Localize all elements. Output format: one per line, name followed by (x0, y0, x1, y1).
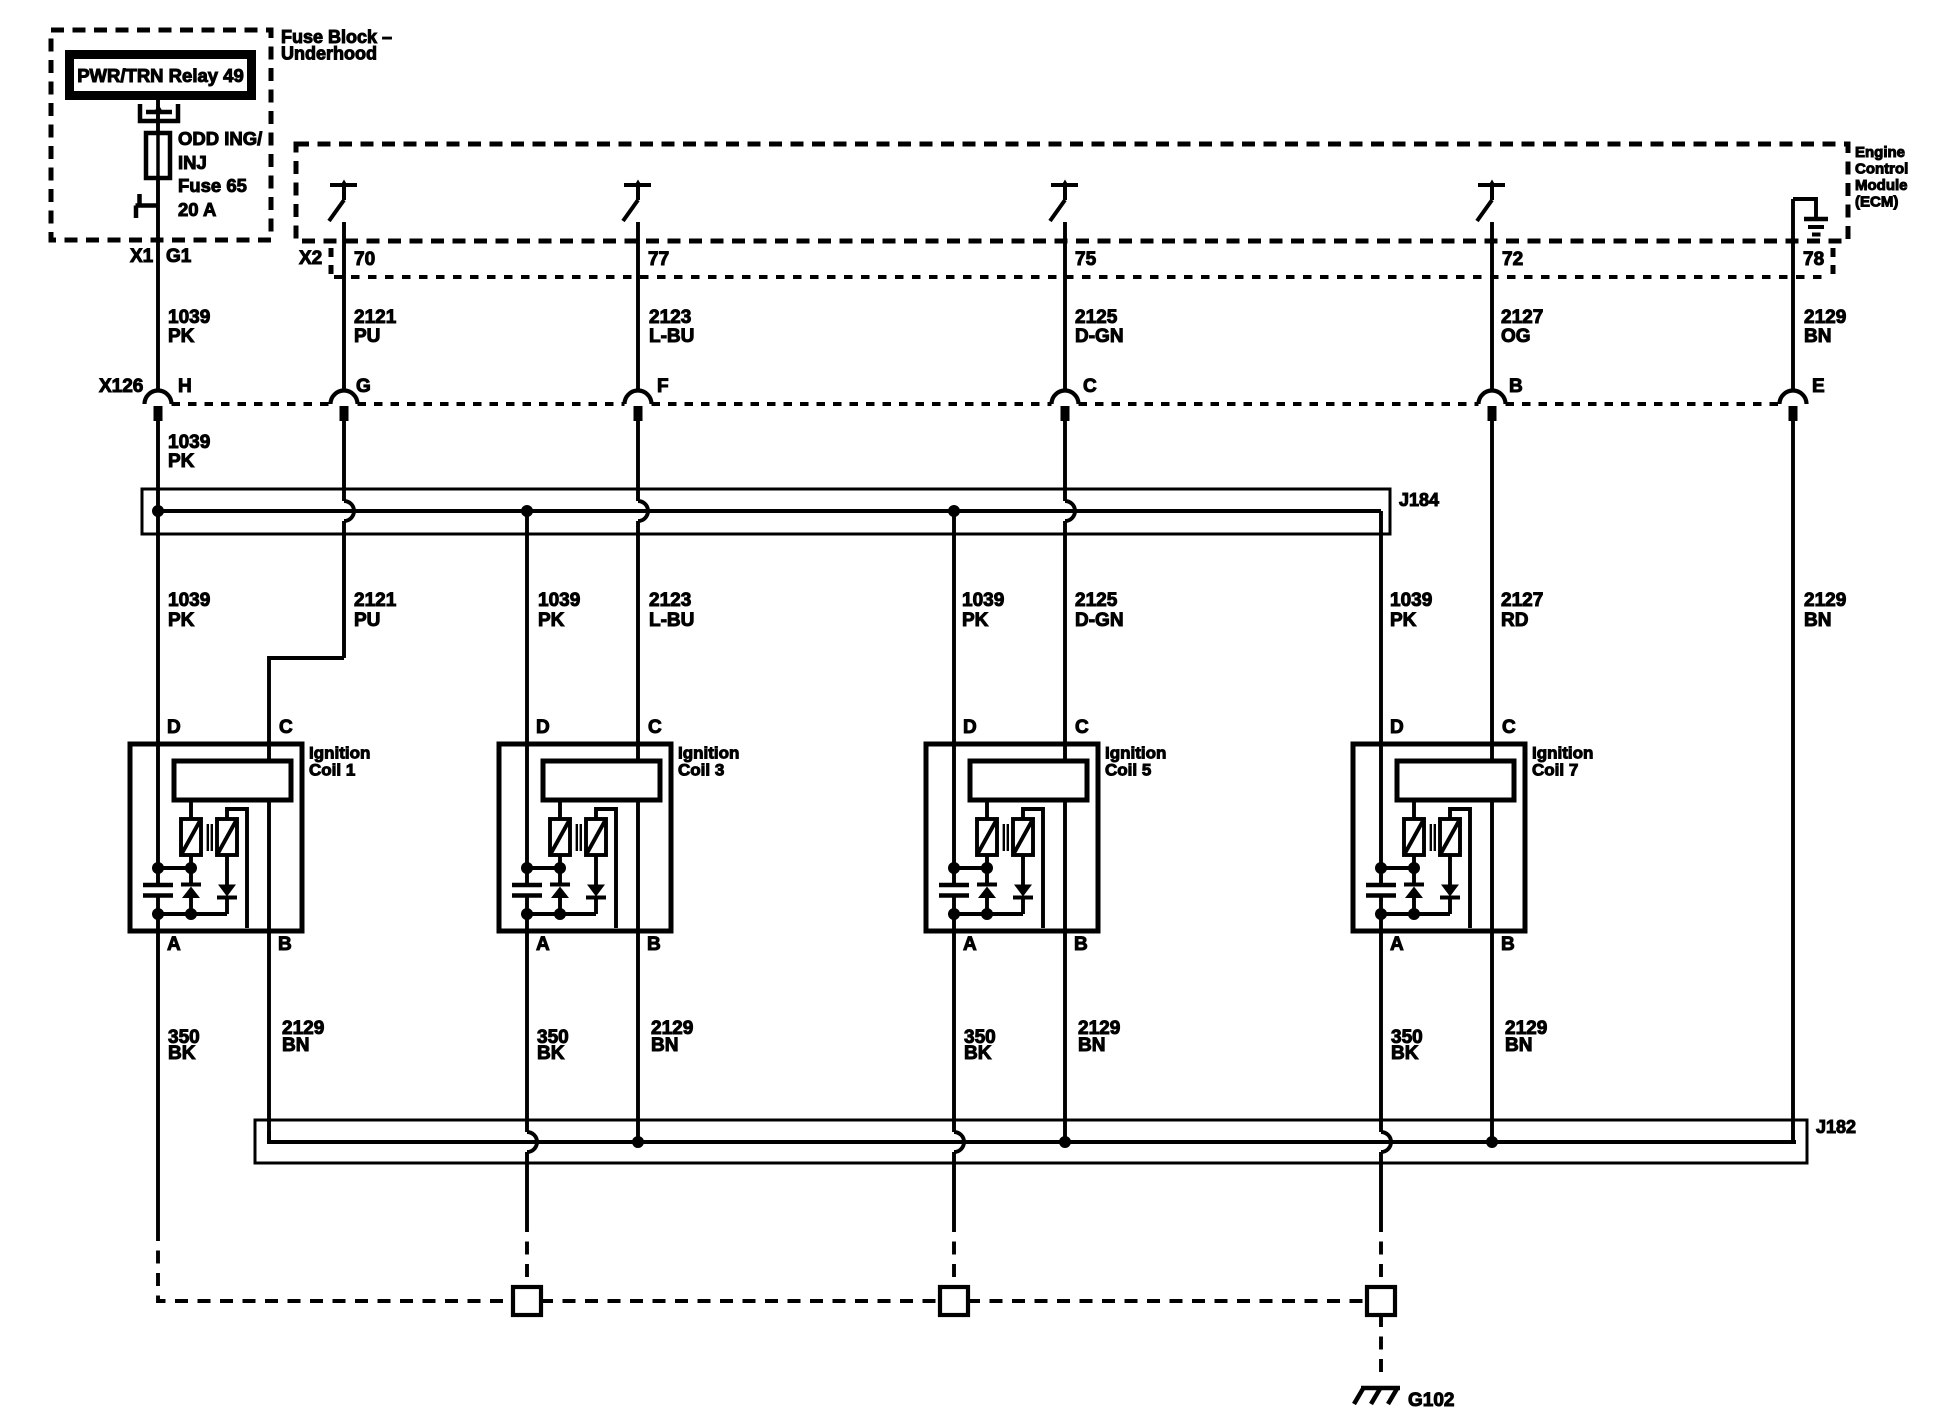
pin letter E (1812, 376, 1825, 397)
fuse block underhood dashed enclosure (51, 30, 271, 240)
pin number 77 (648, 249, 669, 270)
dashed ground link wire horizontal (540, 1299, 1368, 1303)
ignition coil 1 capacitor (143, 885, 173, 896)
coil 7 pin letter D (1390, 717, 1404, 738)
svg-text:PK: PK (1390, 610, 1417, 631)
wire 1039 PK from relay through fuse (vertical) (156, 100, 160, 391)
svg-text:1039: 1039 (962, 590, 1004, 611)
ignition coil 3 diode right (down) (586, 855, 606, 914)
svg-text:BN: BN (1505, 1035, 1532, 1056)
ignition coil 3 diode middle (up) (550, 868, 570, 914)
svg-text:Module: Module (1855, 177, 1908, 194)
wire label 2123 L-BU (upper) (649, 307, 694, 347)
svg-text:2125: 2125 (1075, 307, 1118, 328)
ignition coil 1 enclosure (130, 744, 302, 931)
label Ignition Coil 1 (309, 744, 370, 780)
splice S1 (513, 1287, 541, 1315)
relay terminal arrow (154, 105, 164, 114)
wire label 2129 BN (upper) (1804, 307, 1846, 347)
ignition coil 5 primary winding lead (985, 800, 989, 819)
wire label 2129 BN coil 1 (282, 1018, 324, 1056)
pin letter F (657, 376, 669, 397)
ignition coil 3 primary block (543, 761, 660, 800)
coil 1 pin letter A (167, 934, 181, 955)
ignition coil 5 diode middle (up) (977, 868, 997, 914)
label G102 (1408, 1390, 1454, 1411)
ignition coil 5 junction row lower (948, 908, 1023, 920)
coil 7 pin letter A (1390, 934, 1404, 955)
wire 1039 PK J184 to coil 5 pin D (952, 511, 956, 744)
ignition coil 7 capacitor (1366, 885, 1396, 896)
ignition coil 5 secondary output wire (1023, 809, 1043, 928)
svg-text:C: C (1502, 717, 1516, 738)
wire 2129 BN coil 5 pin B to J182 (1063, 931, 1067, 1142)
coil 3 pin letter C (648, 717, 662, 738)
svg-text:Control: Control (1855, 161, 1908, 178)
coil 5 pin letter A (963, 934, 977, 955)
dashed wire splice to ground (1379, 1314, 1383, 1380)
svg-text:D: D (167, 717, 181, 738)
svg-text:B: B (1509, 376, 1523, 397)
connector X126 pin H (145, 391, 172, 422)
svg-text:BN: BN (1804, 326, 1831, 347)
svg-text:Coil 1: Coil 1 (309, 761, 355, 780)
junction dot J184 coil 3 feed (521, 505, 533, 517)
wire 2121 PU pin 70 to X126 G (342, 222, 346, 391)
wire label 1039 PK (coil 5 feed) (962, 590, 1004, 631)
wire label 1039 PK (coil 7 feed) (1390, 590, 1432, 631)
svg-text:2127: 2127 (1501, 307, 1543, 328)
svg-text:2123: 2123 (649, 307, 691, 328)
wire label 350 BK coil 3 (537, 1027, 569, 1064)
svg-text:B: B (1501, 934, 1515, 955)
ignition coil 3 pin D internal wire (525, 744, 529, 931)
ignition coil 1 diode middle (up) (181, 868, 201, 914)
svg-text:2129: 2129 (1804, 307, 1846, 328)
svg-text:2121: 2121 (354, 307, 397, 328)
ignition coil 3 winding left (550, 819, 570, 855)
wire label 1039 PK (below X126) (168, 432, 210, 472)
ignition coil 7 pin D internal wire (1379, 744, 1383, 931)
pin number 75 (1075, 249, 1097, 270)
relay PWR/TRN Relay 49 box (70, 55, 252, 96)
ignition coil 5 diode right (down) (1013, 855, 1033, 914)
svg-text:(ECM): (ECM) (1855, 194, 1898, 211)
ignition coil 7 primary block (1397, 761, 1514, 800)
label X126 (99, 376, 143, 397)
label Ignition Coil 5 (1105, 744, 1166, 780)
svg-text:BK: BK (1391, 1043, 1419, 1064)
svg-text:D-GN: D-GN (1075, 326, 1124, 347)
svg-text:1039: 1039 (538, 590, 580, 611)
ignition coil 7 junction row upper (1375, 855, 1420, 874)
wire 2121 PU jog to coil 1 pin C (269, 658, 344, 744)
label ODD ING/INJ Fuse 65 20 A (178, 128, 262, 220)
svg-text:Coil 7: Coil 7 (1532, 761, 1578, 780)
wire label 2129 BN coil 7 (1505, 1018, 1547, 1056)
svg-text:D-GN: D-GN (1075, 610, 1124, 631)
wire 2129 BN coil 7 pin B to J182 (1490, 931, 1494, 1142)
wire 1039 PK J184 to coil 1 pin D (156, 511, 160, 744)
svg-text:BK: BK (964, 1043, 992, 1064)
svg-text:72: 72 (1502, 249, 1523, 270)
ignition coil 3 secondary output wire (596, 809, 616, 928)
ground G102 symbol (1354, 1387, 1400, 1404)
svg-text:D: D (963, 717, 977, 738)
svg-text:70: 70 (354, 249, 375, 270)
svg-text:INJ: INJ (178, 152, 207, 173)
ignition coil 5 pin D internal wire (952, 744, 956, 931)
svg-text:78: 78 (1803, 249, 1824, 270)
wire 350 BK coil 7 pin A crossing J182 (1381, 931, 1391, 1288)
connector pin 78 separator dash (1831, 248, 1836, 274)
splice S2 (940, 1287, 968, 1315)
wire 2123 L-BU pin 77 to X126 F (636, 222, 640, 391)
coil 3 pin letter B (647, 934, 661, 955)
ECM driver output pin 75 (1050, 180, 1078, 222)
svg-text:C: C (279, 717, 293, 738)
wire label 350 BK coil 5 (964, 1027, 996, 1064)
connector X2 separator dash (329, 248, 334, 274)
wire 350 BK coil 5 pin A crossing J182 (954, 931, 964, 1288)
wire label 2127 RD (lower) (1501, 590, 1543, 631)
ignition coil 7 enclosure (1353, 744, 1525, 931)
splice pack J184 outer box (142, 489, 1390, 534)
svg-text:BN: BN (282, 1035, 309, 1056)
pin number 70 (354, 249, 375, 270)
wire 2127 OG pin 72 to X126 B (1490, 222, 1494, 391)
svg-text:G: G (356, 376, 371, 397)
svg-text:L-BU: L-BU (649, 610, 694, 631)
svg-text:Coil 3: Coil 3 (678, 761, 724, 780)
svg-text:PK: PK (168, 451, 195, 472)
ECM driver output pin 70 (329, 180, 357, 222)
wire 1039 PK J184 end to coil 7 pin D (1379, 511, 1383, 744)
ignition coil 1 winding left (181, 819, 201, 855)
svg-text:D: D (536, 717, 550, 738)
pin label X2 (299, 248, 322, 269)
svg-text:A: A (963, 934, 977, 955)
svg-text:G102: G102 (1408, 1390, 1454, 1411)
wire label 2125 D-GN (upper) (1075, 307, 1124, 347)
ignition coil 5 capacitor (939, 885, 969, 896)
junction dot J182 coil 7 return (1486, 1136, 1498, 1148)
label Fuse Block - Underhood (281, 27, 392, 64)
fuse output terminal hook (136, 194, 159, 218)
ignition coil 7 primary winding lead (1412, 800, 1416, 819)
connector X126 pin C (1052, 391, 1079, 422)
fuse F65 ODD ING/INJ 20 A (146, 133, 170, 178)
connector X126 pin E (1780, 391, 1807, 422)
engine control module dashed enclosure (296, 144, 1848, 241)
junction dot J182 coil 3 return (632, 1136, 644, 1148)
svg-text:77: 77 (648, 249, 669, 270)
wire label 350 BK coil 1 (168, 1027, 200, 1064)
ignition coil 1 diode right (down) (217, 855, 237, 914)
wire label 2123 L-BU (lower) (649, 590, 694, 631)
coil 1 pin letter D (167, 717, 181, 738)
ignition coil 3 primary winding lead (558, 800, 562, 819)
svg-text:Underhood: Underhood (281, 44, 377, 64)
ignition coil 7 winding right (1440, 819, 1460, 855)
connector X126 pin G (331, 391, 358, 422)
svg-text:2121: 2121 (354, 590, 397, 611)
ignition coil 1 winding right (217, 819, 237, 855)
svg-text:C: C (1075, 717, 1089, 738)
wire label 350 BK coil 7 (1391, 1027, 1423, 1064)
label Engine Control Module (ECM) (1855, 144, 1908, 211)
svg-text:ODD ING/: ODD ING/ (178, 128, 262, 149)
coil 1 pin letter C (279, 717, 293, 738)
wire label 2121 PU (lower) (354, 590, 397, 631)
pin label X1 (130, 246, 154, 267)
wire label 1039 PK (upper) (168, 307, 210, 347)
pin letter G (356, 376, 371, 397)
pin letter C (1083, 376, 1097, 397)
wire label 2121 PU (upper) (354, 307, 397, 347)
svg-text:PK: PK (538, 610, 565, 631)
ignition coil 5 primary block (970, 761, 1087, 800)
svg-text:RD: RD (1501, 610, 1528, 631)
ignition coil 7 pin C internal wire (1490, 744, 1494, 931)
ignition coil 5 winding left (977, 819, 997, 855)
ignition coil 3 enclosure (499, 744, 671, 931)
svg-text:2125: 2125 (1075, 590, 1118, 611)
ignition coil 5 pin C internal wire (1063, 744, 1067, 931)
ignition coil 3 core (577, 824, 581, 851)
ignition coil 3 pin C internal wire (636, 744, 640, 931)
ignition coil 1 junction row upper (152, 855, 197, 874)
svg-text:1039: 1039 (168, 307, 210, 328)
svg-text:Coil 5: Coil 5 (1105, 761, 1151, 780)
svg-text:BK: BK (537, 1043, 565, 1064)
wire 1039 PK J184 to coil 3 pin D (525, 511, 529, 744)
ignition coil 5 junction row upper (948, 855, 993, 874)
ignition coil 1 junction row lower (152, 908, 227, 920)
ignition coil 7 diode right (down) (1440, 855, 1460, 914)
ignition coil 3 winding right (586, 819, 606, 855)
coil 5 pin letter D (963, 717, 977, 738)
ignition coil 7 secondary output wire (1450, 809, 1470, 928)
svg-text:C: C (648, 717, 662, 738)
label Ignition Coil 3 (678, 744, 739, 780)
ignition coil 1 secondary output wire (227, 809, 247, 928)
ignition coil 1 pin D internal wire (156, 744, 160, 931)
coil 5 pin letter C (1075, 717, 1089, 738)
wire 2121 PU crossing J184 (344, 421, 354, 658)
splice pack J182 outer box (255, 1120, 1807, 1163)
svg-text:D: D (1390, 717, 1404, 738)
ignition coil 1 primary winding lead (189, 800, 193, 819)
ECM driver output pin 72 (1477, 180, 1505, 222)
wire 2125 D-GN pin 75 to X126 C (1063, 222, 1067, 391)
ignition coil 7 junction row lower (1375, 908, 1450, 920)
svg-text:PWR/TRN Relay 49: PWR/TRN Relay 49 (77, 65, 244, 86)
wire 350 BK coil 1 pin A (158, 931, 514, 1301)
svg-text:75: 75 (1075, 249, 1097, 270)
connector row X2 dotted line (334, 275, 1827, 279)
wire 2127 OG/RD X126 B to coil 7 (1490, 421, 1494, 744)
svg-text:X1: X1 (130, 246, 154, 267)
coil 5 pin letter B (1074, 934, 1088, 955)
svg-text:PK: PK (168, 326, 195, 347)
svg-text:J182: J182 (1816, 1117, 1856, 1137)
svg-text:B: B (1074, 934, 1088, 955)
pin number 78 (1803, 249, 1824, 270)
svg-text:20 A: 20 A (178, 199, 216, 220)
ignition coil 3 junction row upper (521, 855, 566, 874)
svg-text:H: H (178, 376, 192, 397)
wire 1039 PK X126 H to J184 (156, 421, 160, 506)
svg-text:A: A (167, 934, 181, 955)
svg-text:E: E (1812, 376, 1825, 397)
svg-text:F: F (657, 376, 669, 397)
ignition coil 7 core (1431, 824, 1435, 851)
svg-text:PK: PK (962, 610, 989, 631)
svg-text:PK: PK (168, 610, 195, 631)
ignition coil 5 winding right (1013, 819, 1033, 855)
ignition coil 1 pin C internal wire (267, 744, 271, 931)
ignition coil 7 diode middle (up) (1404, 868, 1424, 914)
junction dot J184 coil 5 feed (948, 505, 960, 517)
ignition coil 1 primary block (174, 761, 291, 800)
svg-text:1039: 1039 (168, 590, 210, 611)
wire label 2129 BN coil 3 (651, 1018, 693, 1056)
ignition coil 1 core (208, 824, 212, 851)
connector X126 dotted line (172, 402, 1780, 406)
wire 2129 BN coil 3 pin B to J182 (636, 931, 640, 1142)
ignition coil 3 junction row lower (521, 908, 596, 920)
junction dot J182 coil 5 return (1059, 1136, 1071, 1148)
label J182 (1816, 1117, 1856, 1137)
svg-text:B: B (647, 934, 661, 955)
coil 3 pin letter A (536, 934, 550, 955)
connector X126 pin F (625, 391, 652, 422)
svg-text:1039: 1039 (168, 432, 210, 453)
svg-text:B: B (278, 934, 292, 955)
ECM internal ground symbol (pin 78) (1793, 199, 1828, 235)
svg-text:PU: PU (354, 610, 380, 631)
wire 2125 D-GN crossing J184 (1065, 421, 1075, 744)
svg-text:X126: X126 (99, 376, 143, 397)
svg-text:2127: 2127 (1501, 590, 1543, 611)
wire 2129 BN pin 78 to X126 E (1791, 199, 1795, 391)
svg-text:L-BU: L-BU (649, 326, 694, 347)
J182 inner bus line (269, 1131, 1796, 1142)
pin label G1 (166, 246, 192, 267)
coil 7 pin letter B (1501, 934, 1515, 955)
svg-text:BK: BK (168, 1043, 196, 1064)
label Ignition Coil 7 (1532, 744, 1593, 780)
svg-text:C: C (1083, 376, 1097, 397)
svg-text:BN: BN (1804, 610, 1831, 631)
ignition coil 5 enclosure (926, 744, 1098, 931)
svg-text:G1: G1 (166, 246, 192, 267)
ignition coil 7 winding left (1404, 819, 1424, 855)
coil 1 pin letter B (278, 934, 292, 955)
wire label 2125 D-GN (lower) (1075, 590, 1124, 631)
svg-text:Fuse 65: Fuse 65 (178, 175, 247, 196)
coil 3 pin letter D (536, 717, 550, 738)
coil 7 pin letter C (1502, 717, 1516, 738)
wire 2129 BN X126 E to J182 (1791, 421, 1795, 1142)
wire 2123 L-BU crossing J184 (638, 421, 648, 744)
wire label 1039 PK (coil 3 feed) (538, 590, 580, 631)
pin number 72 (1502, 249, 1523, 270)
wire label 2129 BN coil 5 (1078, 1018, 1120, 1056)
pin letter H (178, 376, 192, 397)
pin letter B (1509, 376, 1523, 397)
svg-text:A: A (1390, 934, 1404, 955)
svg-text:2123: 2123 (649, 590, 691, 611)
relay output terminal cup (140, 104, 178, 121)
svg-text:PU: PU (354, 326, 380, 347)
J184 inner bus line (154, 509, 1381, 513)
svg-text:BN: BN (1078, 1035, 1105, 1056)
connector X126 pin B (1479, 391, 1506, 422)
wire 350 BK coil 3 pin A crossing J182 (527, 931, 537, 1288)
junction dot J184 at 1039 PK H (152, 505, 164, 517)
wire 2129 BN coil 1 pin B to J182 (267, 931, 271, 1142)
svg-text:BN: BN (651, 1035, 678, 1056)
svg-text:2129: 2129 (1804, 590, 1846, 611)
svg-text:J184: J184 (1399, 490, 1439, 510)
wire label 2129 BN (right) (1804, 590, 1846, 631)
svg-text:A: A (536, 934, 550, 955)
ignition coil 5 core (1004, 824, 1008, 851)
label PWR/TRN Relay 49 (77, 65, 244, 86)
ignition coil 3 capacitor (512, 885, 542, 896)
svg-text:1039: 1039 (1390, 590, 1432, 611)
label J184 (1399, 490, 1439, 510)
svg-text:Engine: Engine (1855, 144, 1905, 161)
splice S3 (1367, 1287, 1395, 1315)
wire label 1039 PK (coil 1 feed) (168, 590, 210, 631)
ECM driver output pin 77 (623, 180, 651, 222)
wire label 2127 OG (upper) (1501, 307, 1543, 347)
svg-text:X2: X2 (299, 248, 322, 269)
svg-text:OG: OG (1501, 326, 1531, 347)
